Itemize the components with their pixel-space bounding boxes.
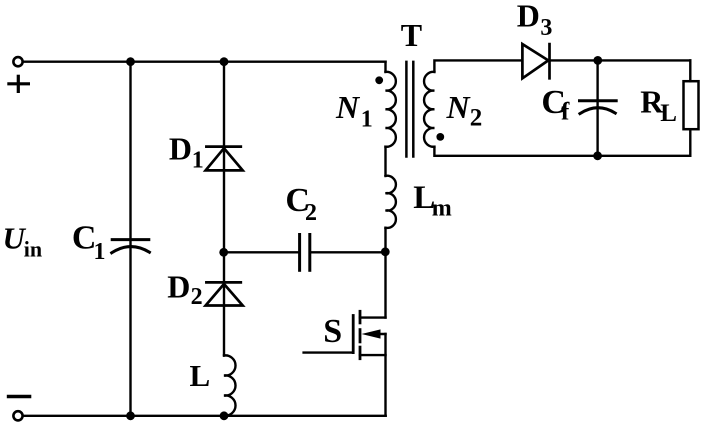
svg-text:T: T bbox=[401, 17, 422, 53]
mosfet S bbox=[304, 311, 386, 416]
diode D2 bbox=[206, 282, 243, 305]
svg-text:D: D bbox=[517, 0, 540, 34]
transformer winding N1 bbox=[386, 72, 396, 147]
plus symbol bbox=[9, 76, 29, 91]
svg-text:D: D bbox=[167, 269, 190, 305]
svg-text:N: N bbox=[335, 89, 361, 125]
polarity dot N2 bbox=[436, 133, 444, 141]
body arrow bbox=[372, 333, 386, 335]
wire D3 to output bbox=[550, 59, 691, 61]
capacitor C1 bbox=[112, 240, 150, 253]
wire bottom rail bbox=[23, 415, 386, 417]
svg-text:N: N bbox=[446, 89, 472, 125]
resistor RL bbox=[689, 60, 691, 81]
drain bar bbox=[360, 316, 386, 318]
inductor Lm bbox=[386, 176, 396, 228]
node Cf bottom bbox=[593, 151, 602, 160]
wire C1 column bbox=[129, 62, 131, 416]
svg-text:L: L bbox=[660, 100, 677, 127]
gate stub wire bbox=[304, 351, 354, 353]
terminal - (bottom-left open circle) bbox=[13, 411, 22, 420]
wire diode column bbox=[223, 62, 225, 356]
svg-text:3: 3 bbox=[540, 15, 552, 41]
node C2-Lm-drain bbox=[381, 247, 390, 256]
node top D column bbox=[220, 57, 229, 66]
wire Lm to drain bbox=[384, 228, 386, 318]
diode D3 bbox=[522, 44, 549, 78]
wire top rail bbox=[23, 61, 385, 63]
svg-text:2: 2 bbox=[191, 284, 203, 310]
wire N2 top to D3 bbox=[434, 60, 522, 72]
transformer winding N2 bbox=[424, 72, 434, 147]
svg-text:S: S bbox=[323, 313, 342, 350]
wire Cf column bbox=[596, 60, 598, 155]
wire N2 bottom rail bbox=[434, 147, 690, 156]
svg-text:m: m bbox=[432, 196, 452, 222]
node top C1 bbox=[126, 57, 135, 66]
node D3-Cf bbox=[593, 56, 602, 65]
svg-text:1: 1 bbox=[192, 147, 204, 173]
gate plate bbox=[352, 316, 355, 353]
transformer core bbox=[406, 62, 413, 157]
capacitor Cf bbox=[580, 101, 617, 114]
node bottom L bbox=[220, 411, 229, 420]
inductor L bbox=[224, 355, 236, 415]
channel dashes bbox=[359, 311, 362, 358]
wire C2 branch bbox=[224, 251, 300, 253]
minus symbol bbox=[9, 395, 30, 398]
svg-text:in: in bbox=[24, 237, 42, 262]
svg-text:D: D bbox=[169, 131, 192, 167]
terminal + (top-left open circle) bbox=[13, 57, 22, 66]
svg-text:2: 2 bbox=[305, 200, 317, 226]
node D1-D2-C2 bbox=[219, 248, 228, 257]
svg-text:1: 1 bbox=[361, 106, 373, 132]
polarity dot N1 bbox=[375, 76, 383, 84]
source down wire bbox=[384, 334, 386, 416]
svg-text:2: 2 bbox=[470, 105, 483, 132]
diode D1 bbox=[206, 147, 243, 171]
svg-text:L: L bbox=[190, 358, 211, 393]
node bottom C1 bbox=[126, 411, 135, 420]
source bar bbox=[360, 354, 386, 356]
wire N1 to Lm bbox=[384, 147, 386, 176]
wire primary column (top corner down to N1) bbox=[384, 62, 386, 72]
svg-text:f: f bbox=[561, 98, 570, 125]
capacitor C2 bbox=[300, 235, 310, 271]
svg-text:1: 1 bbox=[94, 239, 106, 265]
